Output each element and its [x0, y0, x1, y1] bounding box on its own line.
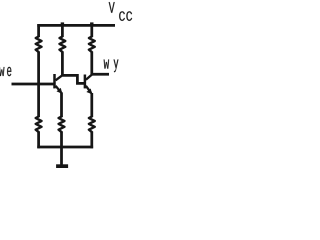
node wy label glyph y: [114, 60, 119, 73]
wire left branch top lead: [37, 24, 40, 37]
transistor Q2: [85, 74, 92, 94]
node we label glyph w: [0, 67, 4, 76]
node we label glyph e: [7, 67, 11, 76]
power Vcc label glyph C1: [119, 11, 125, 21]
resistor R3 upper-right: [89, 37, 95, 53]
wire Q2 emitter lead: [90, 93, 93, 117]
junction stub top rail middle: [61, 22, 64, 25]
resistor R6 lower-right: [89, 117, 95, 133]
transistor Q1: [55, 74, 63, 94]
wire middle branch lower lead: [61, 52, 64, 76]
wire Q1 collector to Q2 base staircase: [62, 75, 84, 83]
wire right branch top lead: [90, 23, 93, 37]
wire left branch middle lead: [37, 52, 40, 118]
wire ground stub: [60, 147, 63, 165]
wire lower-middle bottom lead: [60, 132, 63, 149]
wire middle branch top lead: [61, 23, 64, 37]
wire left branch bottom lead: [37, 132, 40, 149]
node wy label glyph w: [104, 60, 109, 69]
wire we input line: [12, 83, 54, 86]
power Vcc label glyph V: [109, 2, 115, 13]
resistor R1 upper-left: [36, 37, 42, 53]
wire lower-right bottom lead: [90, 132, 93, 149]
wire right branch lower lead: [90, 52, 93, 75]
resistor R4 lower-left: [36, 117, 42, 133]
junction stub top rail right: [90, 22, 93, 25]
wire wy output line: [91, 73, 109, 76]
power Vcc label glyph C2: [126, 11, 132, 21]
wire Vcc top rail: [37, 24, 115, 27]
wire Q1 emitter lead: [60, 92, 63, 117]
wire bottom rail: [37, 146, 93, 149]
resistor R2 upper-middle: [60, 37, 66, 53]
resistor R5 lower-middle: [59, 117, 65, 133]
ground: [56, 164, 68, 168]
